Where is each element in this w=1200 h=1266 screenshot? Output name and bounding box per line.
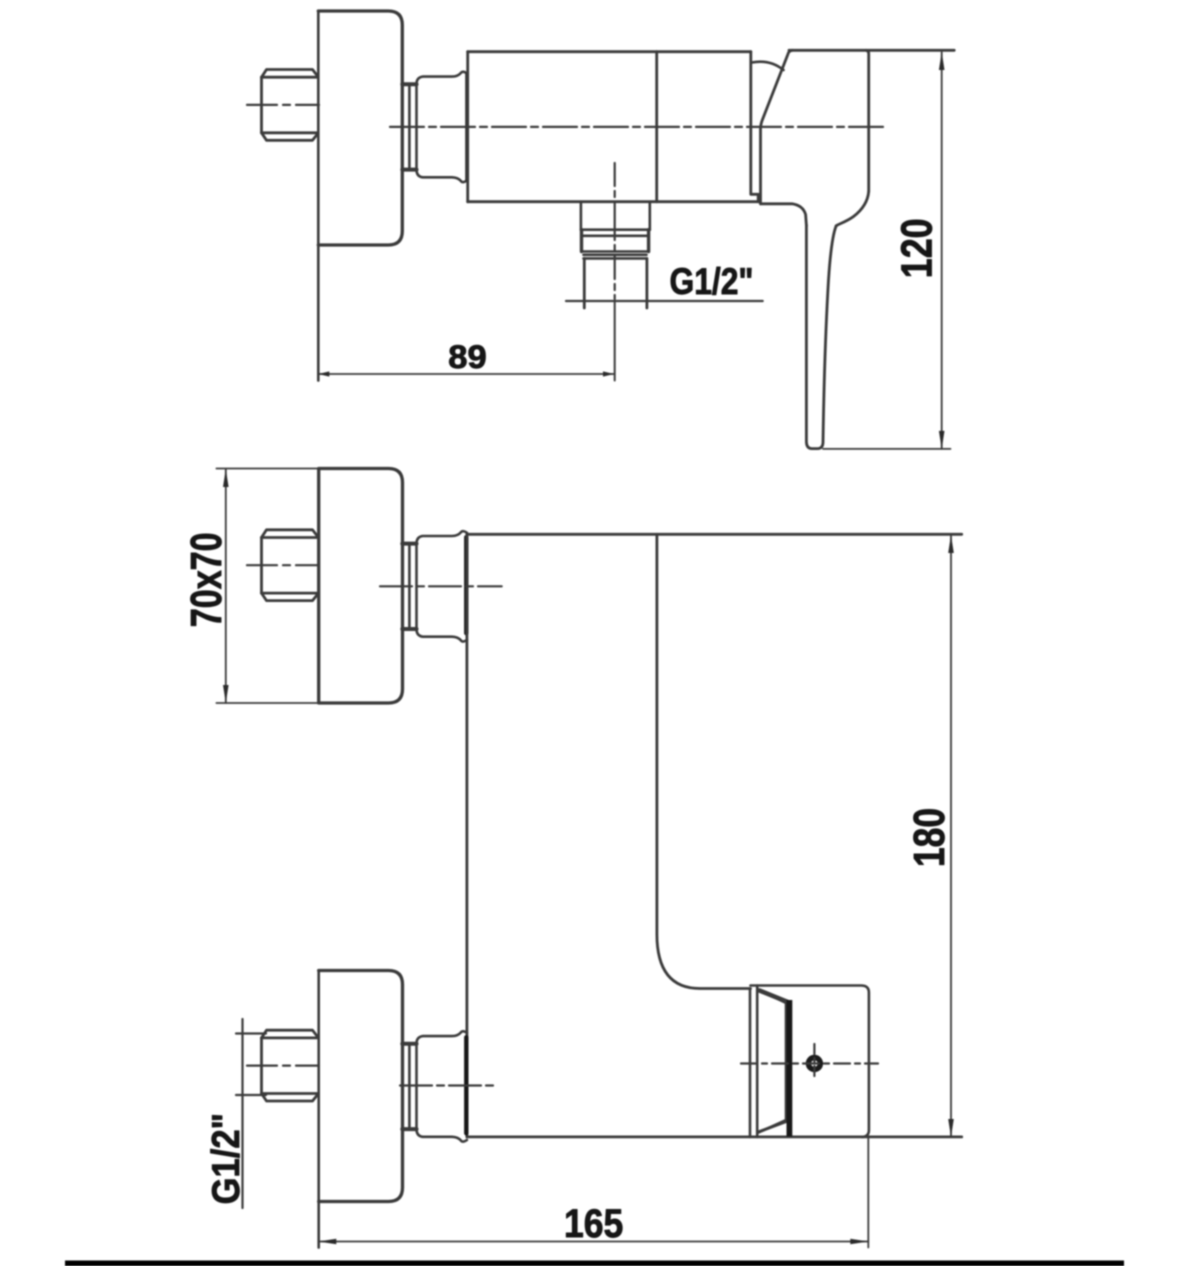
svg-text:120: 120: [893, 218, 942, 278]
thread centerline (top view): [247, 104, 319, 106]
handle seen end-on (front view): [750, 986, 869, 1137]
dimension 180: [950, 535, 952, 1137]
dimension 165: [318, 1137, 868, 1248]
connection nut (top view): [402, 72, 467, 182]
dimension 89: [318, 373, 614, 375]
screw hole crosshairs: [741, 1062, 878, 1064]
wall flange (top view): [318, 11, 402, 381]
shower outlet G1/2 (top view): [581, 202, 650, 308]
handle screw hole: [808, 1058, 820, 1070]
svg-text:G1/2": G1/2": [670, 261, 754, 302]
body centerline (top view): [390, 126, 887, 128]
outlet centerline (top view): [614, 163, 616, 299]
panel body (front view): [467, 534, 962, 1137]
bottom connection nut (front view): [402, 1031, 467, 1141]
wall thread G1/2 (top view): [262, 70, 319, 141]
dimension 120: [823, 52, 951, 449]
cartridge dome arc: [752, 62, 784, 70]
top wall thread (front view): [262, 530, 319, 601]
bottom wall thread (front view): [262, 1030, 319, 1101]
cartridge cap right edge (top view): [751, 52, 758, 202]
top connection nut (front view): [402, 531, 467, 641]
svg-text:89: 89: [448, 339, 486, 375]
faucet body (top view): [468, 52, 759, 202]
top connection centerline (front view): [380, 585, 502, 587]
bottom wall flange (front view): [319, 971, 403, 1248]
top thread centerline (front view): [247, 564, 319, 566]
handle lever (top view): [761, 50, 955, 448]
bottom connection centerline (front view): [400, 1084, 493, 1086]
svg-text:70x70: 70x70: [182, 532, 231, 627]
handle cartridge shadow bar: [787, 1000, 793, 1137]
thick base line: [65, 1261, 1124, 1266]
svg-text:180: 180: [905, 808, 954, 867]
bottom thread centerline (front view): [247, 1064, 319, 1066]
svg-text:165: 165: [564, 1202, 623, 1246]
top wall flange (front view): [319, 469, 403, 704]
dimension 70x70: [216, 469, 320, 704]
